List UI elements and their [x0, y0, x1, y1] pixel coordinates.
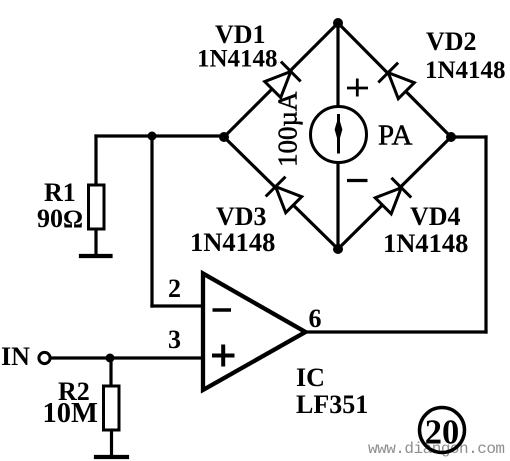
- svg-text:3: 3: [168, 325, 181, 354]
- svg-text:1N4148: 1N4148: [383, 228, 468, 258]
- wire: pin 2 horizontal: [152, 304, 202, 307]
- svg-text:VD4: VD4: [410, 202, 461, 231]
- wire: R1 bottom lead: [94, 229, 97, 254]
- diode VD1: [265, 62, 301, 98]
- diode VD3: [266, 177, 302, 213]
- svg-text:6: 6: [309, 304, 322, 333]
- wire: R1 top to bridge left vertex: [96, 134, 224, 137]
- meter PA needle: [335, 114, 341, 154]
- svg-text:100µA: 100µA: [273, 91, 303, 167]
- node: bridge left vertex: [219, 132, 229, 142]
- node: bridge right vertex: [446, 132, 456, 142]
- svg-text:20: 20: [425, 414, 460, 452]
- resistor R2: [104, 386, 120, 430]
- wire: bridge branch top-right (VD2 branch): [338, 23, 451, 137]
- ground (below R2): [96, 455, 127, 459]
- svg-text:10M: 10M: [43, 398, 99, 429]
- op-amp U1 (IC LF351): [203, 274, 306, 391]
- terminal IN: [39, 352, 50, 363]
- wire: R2 top lead: [109, 358, 112, 386]
- wire: right vertical to bridge right vertex: [451, 135, 486, 138]
- node: R2 junction: [106, 354, 115, 363]
- wire: meter top lead: [336, 23, 339, 107]
- svg-text:IC: IC: [296, 363, 325, 392]
- op-amp minus input sign: [213, 308, 232, 312]
- diode VD4: [375, 178, 411, 214]
- meter minus sign: [347, 179, 368, 182]
- diode VD2: [378, 63, 414, 99]
- svg-text:2: 2: [168, 274, 181, 303]
- wire: op-amp output to right vertical: [304, 330, 486, 333]
- wire: bridge branch bottom-right (VD4 branch): [338, 137, 451, 249]
- svg-text:90Ω: 90Ω: [37, 204, 83, 233]
- wire: meter bottom lead: [336, 163, 339, 249]
- resistor R1: [89, 185, 105, 229]
- wire: bridge branch left-bottom (VD3 branch): [224, 137, 338, 249]
- wire: right vertical: [484, 137, 487, 332]
- svg-text:R1: R1: [44, 178, 76, 207]
- svg-text:IN: IN: [1, 342, 30, 371]
- svg-text:1N4148: 1N4148: [197, 46, 278, 73]
- wire: IN to pin 3: [51, 356, 202, 359]
- ground (below R1): [81, 254, 111, 258]
- wire: R1 top lead: [94, 136, 97, 185]
- meter PA circle: [311, 107, 367, 163]
- svg-text:VD2: VD2: [426, 27, 477, 56]
- meter plus sign: [347, 79, 368, 97]
- op-amp plus input sign: [212, 345, 235, 367]
- wire: R2 bottom lead: [110, 430, 113, 455]
- svg-text:1N4148: 1N4148: [190, 227, 275, 257]
- node: feedback junction: [148, 132, 157, 141]
- svg-text:1N4148: 1N4148: [425, 57, 506, 84]
- svg-text:PA: PA: [378, 120, 412, 152]
- wire: feedback vertical to pin 2: [150, 136, 153, 306]
- node: bridge top vertex: [333, 18, 343, 28]
- wire: bridge branch left-top (VD1 branch): [224, 23, 338, 137]
- circled figure number 20: [420, 408, 465, 453]
- node: bridge bottom vertex: [333, 244, 343, 254]
- svg-text:LF351: LF351: [296, 390, 368, 419]
